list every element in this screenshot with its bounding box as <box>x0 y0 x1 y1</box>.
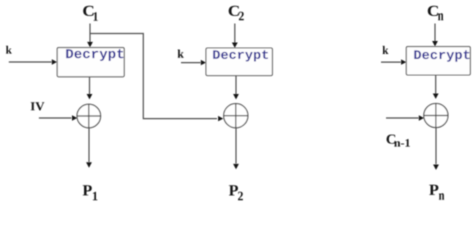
xor gate X1 <box>77 104 101 128</box>
wire k into U3 <box>381 61 401 63</box>
label Pn "P" <box>429 185 438 195</box>
label Cn-1 "C" <box>387 135 396 144</box>
wire branch node C1 to XOR X2 (elbow) <box>90 34 217 119</box>
label Cn sub "n" <box>438 13 443 20</box>
wire k into U2 <box>181 62 201 64</box>
label Pn sub "n" <box>439 193 444 200</box>
label k block2 <box>178 50 184 58</box>
text "Decrypt" U2 <box>213 50 268 61</box>
wire C1 down to Decrypt U1 <box>89 24 91 43</box>
label P1 sub "1" <box>93 192 98 200</box>
xor gate X3 <box>424 103 448 127</box>
wire XOR X1 down to P1 <box>88 128 90 162</box>
label Cn-1 sub "n-1" <box>394 139 410 147</box>
wire XOR X3 down to Pn <box>435 128 437 165</box>
label C2 "C" <box>229 6 239 16</box>
label Cn "C" <box>428 6 438 16</box>
label k block1 <box>6 46 12 54</box>
label C1 sub "1" <box>94 12 98 21</box>
label IV <box>31 102 45 110</box>
decrypt box U2 <box>206 48 272 76</box>
wire C2 down to Decrypt U2 <box>234 24 236 43</box>
decrypt box U1 <box>57 48 124 77</box>
text "Decrypt" U1 <box>66 49 123 61</box>
text "Decrypt" U3 <box>414 50 469 61</box>
label P2 sub "2" <box>238 192 243 201</box>
label C2 sub "2" <box>239 12 244 21</box>
wire U1 to XOR X1 <box>89 77 91 94</box>
wire Cn-1 into XOR X3 <box>386 117 419 119</box>
label k block3 <box>383 46 389 54</box>
label C1 "C" <box>83 6 93 16</box>
wire Cn down to Decrypt U3 <box>434 24 436 42</box>
wire U3 to XOR X3 <box>435 75 437 94</box>
wire k into U1 <box>9 61 52 63</box>
label P1 "P" <box>83 185 92 195</box>
wire U2 to XOR X2 <box>235 76 237 94</box>
decrypt box U3 <box>406 47 470 75</box>
label P2 "P" <box>229 185 238 195</box>
wire IV into XOR X1 <box>39 117 72 119</box>
xor gate X2 <box>224 104 248 128</box>
wire XOR X2 down to P2 <box>235 128 237 164</box>
